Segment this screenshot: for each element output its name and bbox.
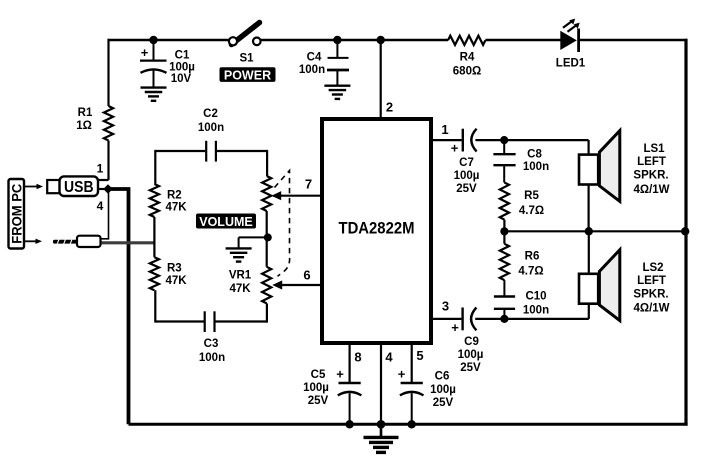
svg-text:R2: R2 [167,190,182,202]
svg-text:100µ: 100µ [458,349,484,361]
svg-text:R6: R6 [525,251,540,263]
svg-text:3: 3 [442,299,449,314]
svg-text:1Ω: 1Ω [76,120,92,132]
svg-text:VR1: VR1 [229,270,252,282]
svg-text:47K: 47K [229,283,251,295]
svg-text:1: 1 [441,122,448,137]
svg-text:LEFT: LEFT [637,156,666,168]
svg-text:100n: 100n [198,122,224,134]
svg-text:LED1: LED1 [556,58,586,70]
svg-text:47K: 47K [166,275,188,287]
svg-text:100n: 100n [199,352,225,364]
svg-text:+: + [336,367,344,382]
svg-text:C4: C4 [307,52,322,64]
svg-text:+: + [141,45,149,60]
svg-text:25V: 25V [433,397,454,409]
svg-text:2: 2 [386,100,393,115]
svg-text:C8: C8 [527,149,542,161]
svg-text:C3: C3 [204,338,219,350]
svg-text:100µ: 100µ [454,170,480,182]
svg-text:6: 6 [303,268,310,283]
svg-text:C5: C5 [311,369,326,381]
svg-text:100n: 100n [523,161,549,173]
svg-text:100µ: 100µ [430,384,456,396]
svg-text:1: 1 [97,162,104,176]
svg-text:8: 8 [354,350,361,365]
svg-text:7: 7 [305,177,312,192]
svg-text:USB: USB [64,179,94,196]
svg-text:47K: 47K [166,202,188,214]
svg-text:C9: C9 [464,336,479,348]
svg-text:100n: 100n [523,305,549,317]
svg-text:R4: R4 [460,52,475,64]
svg-text:+: + [451,320,459,335]
svg-text:4: 4 [97,199,104,213]
svg-text:POWER: POWER [224,68,271,82]
svg-text:100µ: 100µ [169,62,195,74]
svg-text:SPKR.: SPKR. [633,170,668,182]
svg-text:4.7Ω: 4.7Ω [518,266,543,278]
svg-text:+: + [451,141,459,156]
svg-text:680Ω: 680Ω [453,66,481,78]
svg-text:LEFT: LEFT [637,275,666,287]
svg-text:S1: S1 [239,53,254,65]
svg-text:C2: C2 [203,108,218,120]
svg-text:25V: 25V [308,395,329,407]
svg-text:C1: C1 [175,50,190,62]
svg-text:100µ: 100µ [303,382,329,394]
svg-text:C7: C7 [459,157,474,169]
svg-text:R3: R3 [167,263,182,275]
svg-text:LS1: LS1 [643,143,665,155]
svg-text:R1: R1 [78,107,93,119]
svg-text:VOLUME: VOLUME [199,215,252,229]
svg-text:R5: R5 [524,190,539,202]
svg-text:FROM PC: FROM PC [9,183,24,243]
svg-text:100n: 100n [299,64,325,76]
svg-text:+: + [398,367,406,382]
svg-text:TDA2822M: TDA2822M [339,220,415,238]
svg-text:25V: 25V [460,362,481,374]
svg-text:4: 4 [385,350,393,365]
svg-text:C10: C10 [525,291,546,303]
svg-text:5: 5 [416,348,423,363]
svg-text:4Ω/1W: 4Ω/1W [633,303,669,315]
svg-text:LS2: LS2 [642,262,663,274]
svg-text:4Ω/1W: 4Ω/1W [633,184,669,196]
svg-text:C6: C6 [435,371,450,383]
svg-text:25V: 25V [456,183,477,195]
svg-text:SPKR.: SPKR. [633,289,668,301]
svg-text:4.7Ω: 4.7Ω [519,205,544,217]
svg-text:10V: 10V [171,73,192,85]
